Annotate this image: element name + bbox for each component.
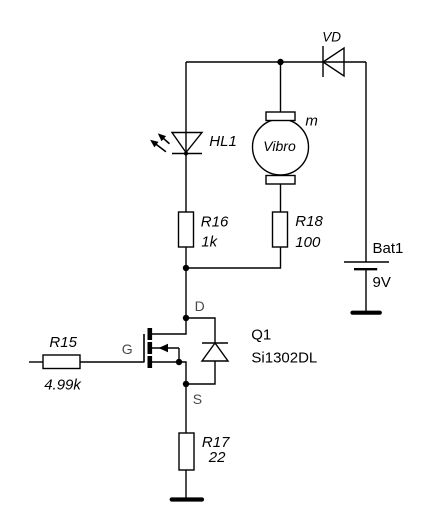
- diode VD: [323, 46, 344, 77]
- svg-text:Si1302DL: Si1302DL: [251, 349, 317, 366]
- svg-text:R18: R18: [295, 213, 323, 230]
- node substrate dot: [176, 359, 182, 365]
- svg-text:G: G: [122, 341, 133, 357]
- source internal wire: [152, 362, 186, 384]
- svg-text:Vibro: Vibro: [263, 138, 296, 154]
- svg-text:R16: R16: [201, 213, 229, 230]
- node drain dot: [183, 315, 189, 321]
- body diode: [186, 318, 215, 343]
- svg-text:Bat1: Bat1: [373, 240, 404, 257]
- svg-text:1k: 1k: [201, 234, 218, 251]
- channel segment source: [148, 356, 153, 368]
- wire R16 bottom to drain: [185, 247, 187, 318]
- svg-text:S: S: [193, 391, 202, 407]
- channel segment drain: [148, 328, 153, 340]
- svg-text:4.99k: 4.99k: [44, 377, 82, 394]
- svg-text:HL1: HL1: [209, 133, 237, 150]
- wire battery negative to ground: [365, 269, 367, 311]
- node source dot: [183, 381, 189, 387]
- resistor R15: [43, 355, 80, 369]
- wire motor to R18: [280, 184, 282, 212]
- ground: [172, 497, 202, 501]
- wire source to R17: [185, 384, 187, 433]
- node junction R16/R18: [183, 265, 189, 271]
- battery Bat1: [344, 262, 389, 269]
- wire R15 to gate: [80, 361, 144, 363]
- resistor R16: [179, 212, 194, 247]
- svg-text:9V: 9V: [373, 274, 391, 291]
- wire R17 to ground: [185, 470, 187, 498]
- svg-text:100: 100: [295, 234, 321, 251]
- svg-text:m: m: [305, 112, 318, 129]
- ground (battery): [353, 311, 380, 315]
- wire motor branch vertical: [280, 62, 282, 113]
- svg-text:22: 22: [208, 449, 226, 466]
- transistor Q1: [144, 315, 228, 387]
- svg-text:R15: R15: [49, 334, 77, 351]
- wire LED branch vertical (top net to R16): [185, 62, 187, 212]
- wire R15 left stub: [29, 361, 43, 363]
- svg-text:VD: VD: [322, 30, 341, 45]
- wire top horizontal net: [186, 61, 366, 63]
- resistor R17: [179, 433, 194, 470]
- channel segment body: [148, 342, 153, 354]
- drain internal wire: [152, 318, 186, 334]
- substrate arrow: [152, 347, 179, 349]
- gate lead: [143, 334, 145, 363]
- svg-text:Q1: Q1: [251, 327, 271, 344]
- resistor R18: [273, 212, 288, 247]
- node junction top (motor branch): [277, 59, 283, 65]
- motor M Vibro: [253, 112, 309, 184]
- wire right vertical (diode to battery): [365, 62, 367, 262]
- wire R18 bottom to node: [186, 247, 281, 268]
- LED HL1: [148, 131, 202, 156]
- svg-text:D: D: [195, 298, 205, 314]
